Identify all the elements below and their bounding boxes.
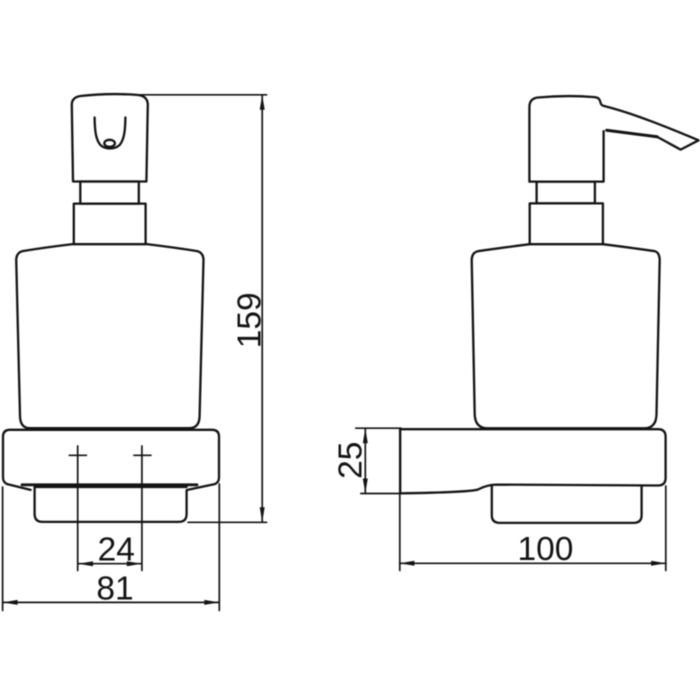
bottle body (side) xyxy=(472,244,660,428)
spout inner thick line (side) xyxy=(607,130,658,136)
arrow 81 right xyxy=(204,600,219,605)
arrow 159 top xyxy=(260,95,265,110)
holder profile (side) xyxy=(400,429,665,493)
neck (front) xyxy=(80,182,139,204)
arrow 25 top xyxy=(363,428,368,443)
dimension line 25 xyxy=(364,428,366,493)
extension line 100 right xyxy=(665,486,667,571)
spout tip ellipse (front) xyxy=(104,140,115,147)
pump head with spout (side) xyxy=(529,96,698,182)
dimension line 100 xyxy=(400,562,666,564)
arrow 159 bottom xyxy=(260,507,265,522)
arrow 25 bottom xyxy=(363,479,368,494)
extension line 81 right xyxy=(218,484,220,611)
extension line from right cross xyxy=(141,446,143,571)
extension line 25 bottom xyxy=(361,493,400,495)
arrow 100 left xyxy=(400,561,415,566)
neck (side) xyxy=(537,182,595,204)
svg-text:100: 100 xyxy=(518,531,574,568)
dimension line 159 xyxy=(261,95,263,522)
glass dish (front) xyxy=(35,487,187,522)
spout opening U-mark (front) xyxy=(95,118,126,149)
svg-text:81: 81 xyxy=(96,571,133,608)
svg-text:24: 24 xyxy=(98,532,135,569)
collar (side) xyxy=(530,203,603,244)
extension line 25 top xyxy=(356,427,401,429)
collar (front) xyxy=(74,204,146,245)
head right edge (side) xyxy=(529,131,603,181)
extension line 81 left xyxy=(2,487,4,611)
extension line from left cross xyxy=(77,446,79,571)
mounting cross left xyxy=(69,454,86,456)
holder plate (front) xyxy=(3,430,219,490)
holder bottom thick edge (front) xyxy=(22,483,197,486)
svg-text:159: 159 xyxy=(231,292,268,348)
dimension line 81 xyxy=(3,601,219,603)
arrow 100 right xyxy=(651,561,666,566)
extension line 159 bottom xyxy=(188,521,267,523)
arrow 24 right xyxy=(127,561,142,566)
extension line 159 top xyxy=(134,94,267,96)
extension line 100 left (wall line) xyxy=(399,429,401,570)
glass dish (side) xyxy=(492,485,642,523)
arrow 81 left xyxy=(3,600,18,605)
dimension line 24 xyxy=(78,563,141,565)
arrow 24 left xyxy=(78,561,93,566)
mounting cross right xyxy=(134,454,151,456)
bottle body (front) xyxy=(16,244,203,428)
pump head (front) xyxy=(72,94,148,181)
svg-text:25: 25 xyxy=(333,442,370,479)
